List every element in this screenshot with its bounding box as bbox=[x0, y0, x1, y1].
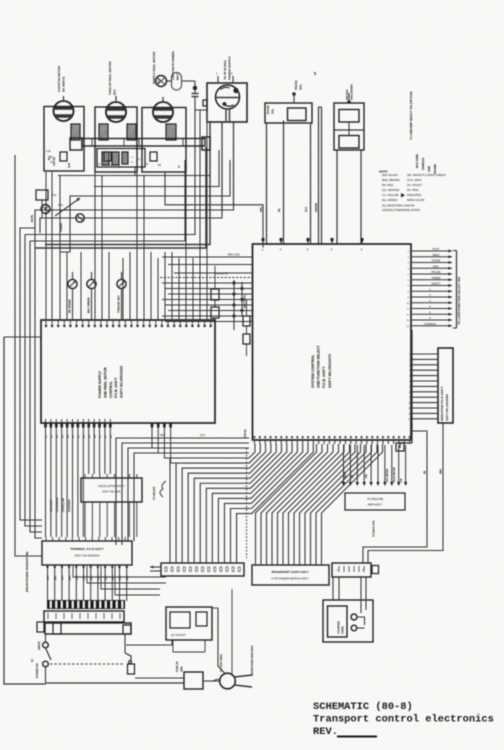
svg-text:ASS'Y NO.05010070: ASS'Y NO.05010070 bbox=[328, 354, 332, 388]
junction bus vertical 1 bbox=[233, 280, 235, 330]
svg-text:BELT: BELT bbox=[176, 73, 180, 80]
svg-text:(G)GREEN: (G)GREEN bbox=[68, 499, 71, 512]
capacitor C1 bbox=[192, 90, 199, 104]
svg-text:TIMER: TIMER bbox=[432, 276, 441, 280]
svg-text:(BK): (BK) bbox=[91, 575, 93, 580]
svg-text:6P: 6P bbox=[313, 72, 317, 75]
terminal board bottom pins bbox=[47, 565, 128, 601]
wires bar to counter bbox=[333, 577, 366, 613]
svg-text:Transport control electronics: Transport control electronics bbox=[313, 714, 494, 726]
svg-text:REW: REW bbox=[433, 253, 440, 257]
power board bottom pins left bbox=[44, 419, 112, 438]
connector bar left wires bbox=[150, 566, 161, 571]
capacitor C2 bbox=[102, 152, 109, 165]
svg-text:(MUTING): (MUTING) bbox=[243, 295, 247, 308]
indicator board pins bbox=[408, 354, 438, 421]
svg-text:(GY): (GY) bbox=[305, 207, 308, 212]
svg-text:BRAKE: BRAKE bbox=[345, 89, 349, 100]
svg-text:UNSWITCHED 200W MAX: UNSWITCHED 200W MAX bbox=[251, 645, 254, 676]
power switch S1 lever bbox=[46, 648, 52, 660]
wire flywheel to node bbox=[167, 80, 195, 82]
motor M1 label texts bbox=[47, 155, 56, 166]
wires to terminal board from fan bbox=[116, 438, 249, 545]
connector bar J2 bbox=[161, 563, 244, 576]
svg-text:REC: REC bbox=[433, 264, 439, 268]
svg-text:BLUE METER: BLUE METER bbox=[394, 467, 396, 482]
system board top pins bbox=[262, 238, 364, 252]
wire relay drop bbox=[42, 200, 46, 233]
supply reel motor M3 bbox=[153, 97, 173, 122]
ac outlet box bbox=[166, 607, 212, 640]
capstan motor M1 bbox=[54, 96, 74, 121]
node A junction dot bbox=[193, 81, 196, 90]
terminal pin colour labels bbox=[48, 575, 129, 580]
power board top pin row bbox=[45, 320, 212, 327]
trimpot VR3 label bbox=[117, 295, 121, 313]
svg-text:ASS'Y NO.05010204: ASS'Y NO.05010204 bbox=[74, 554, 100, 558]
svg-text:SCHEMATIC (80-8): SCHEMATIC (80-8) bbox=[313, 701, 413, 713]
svg-text:TO REC/PB: TO REC/PB bbox=[367, 497, 383, 501]
left vertical label bbox=[25, 552, 29, 592]
wires terminal to outlet bbox=[73, 565, 166, 595]
indicator board label bbox=[440, 387, 449, 421]
svg-text:INDICATES: INDICATES bbox=[407, 193, 421, 197]
wire solenoid drops to board bbox=[281, 250, 286, 253]
svg-text:TO HEADS: TO HEADS bbox=[152, 486, 156, 500]
transistor Q2 bbox=[76, 214, 84, 222]
wire corner group C bbox=[25, 110, 286, 253]
svg-text:(BK): (BK) bbox=[120, 575, 122, 580]
component R9 bbox=[211, 307, 219, 318]
component R8 bbox=[211, 289, 219, 300]
wire sol bus 1 bbox=[0, 0, 1, 1]
component R5 bbox=[243, 316, 250, 326]
switch link dashed bbox=[50, 663, 124, 665]
svg-text:TAKE UP REEL MOTOR: TAKE UP REEL MOTOR bbox=[108, 61, 112, 95]
svg-text:(BK): (BK) bbox=[105, 575, 107, 580]
svg-text:PAUSE: PAUSE bbox=[431, 270, 440, 274]
wire counter left bbox=[232, 589, 244, 674]
terminal board top pins bbox=[46, 537, 125, 541]
component R6 bbox=[243, 334, 250, 344]
svg-text:TO BIAS OSC: TO BIAS OSC bbox=[372, 520, 376, 537]
capstan motor M1 label bbox=[57, 65, 66, 92]
svg-text:4.7K: 4.7K bbox=[58, 204, 63, 207]
brake solenoid SL2 label bbox=[345, 83, 354, 100]
svg-text:(BK): (BK) bbox=[62, 575, 64, 580]
transport control box bbox=[252, 565, 329, 585]
svg-text:TO 4P IN REG.: TO 4P IN REG. bbox=[223, 59, 227, 80]
svg-text:AND REEL MOTOR: AND REEL MOTOR bbox=[103, 367, 107, 398]
svg-text:INDICATOR P.C.B ASS'Y: INDICATOR P.C.B ASS'Y bbox=[440, 387, 444, 421]
oscillator board pins bbox=[85, 474, 137, 507]
svg-text:SYSTEM CONTROL: SYSTEM CONTROL bbox=[311, 354, 315, 388]
svg-text:WIRE COLOR: WIRE COLOR bbox=[407, 198, 424, 202]
svg-text:SOL: SOL bbox=[299, 84, 303, 90]
fuse label bbox=[176, 661, 184, 672]
svg-text:4.75V POWER SWITCH ASS'Y: 4.75V POWER SWITCH ASS'Y bbox=[271, 577, 309, 581]
svg-text:2SD313: 2SD313 bbox=[38, 641, 41, 650]
wires osc to terminal bbox=[85, 507, 137, 537]
motor M2 winding R2 bbox=[99, 124, 108, 140]
svg-text:(BK): (BK) bbox=[84, 575, 86, 580]
svg-text:POWER SW: POWER SW bbox=[35, 663, 39, 678]
svg-text:SOLENOID: SOLENOID bbox=[350, 83, 354, 100]
function select bracket label bbox=[457, 277, 461, 325]
motor M3 frame bbox=[142, 108, 186, 173]
wire bus drop 1 bbox=[105, 167, 135, 176]
system board left comp column label bbox=[243, 295, 247, 308]
svg-text:FUSE 2A: FUSE 2A bbox=[176, 661, 179, 672]
svg-text:(BK): (BK) bbox=[113, 575, 115, 580]
svg-text:(TAPE): (TAPE) bbox=[342, 626, 345, 634]
system board top pin numbers bbox=[0, 0, 1, 1]
svg-text:SOL: SOL bbox=[271, 108, 275, 114]
fan brace label bbox=[152, 486, 156, 500]
svg-text:MUTE: MUTE bbox=[31, 215, 34, 222]
wires into system board left upper bbox=[162, 257, 253, 273]
legend vertical label 4 bbox=[427, 166, 431, 172]
amplifier board bar 2 bbox=[45, 623, 131, 634]
wire outlet drops bbox=[173, 640, 205, 652]
wire corner group A bbox=[60, 150, 230, 252]
svg-text:PAUSE: PAUSE bbox=[294, 80, 298, 90]
svg-text:CAPSTAN MOTOR: CAPSTAN MOTOR bbox=[57, 65, 61, 92]
svg-text:ALL RESISTORS 1/4W 5%: ALL RESISTORS 1/4W 5% bbox=[382, 204, 415, 208]
wire left bus 3 bbox=[30, 241, 42, 532]
wire indicator bus bend bbox=[400, 443, 412, 448]
wire M1 frame drop bbox=[46, 170, 52, 172]
svg-text:(FROM POWER TRANSISTOR): (FROM POWER TRANSISTOR) bbox=[25, 552, 29, 592]
counter assembly box bbox=[323, 600, 373, 642]
svg-text:(P)--PINK: (P)--PINK bbox=[407, 188, 419, 192]
wires into system board left mid bbox=[162, 282, 253, 322]
svg-text:(W): (W) bbox=[366, 474, 368, 478]
motor M2 frame components bbox=[97, 152, 121, 168]
motor M1 frame components bbox=[46, 151, 71, 168]
motor M3 frame components bbox=[145, 152, 181, 168]
component labels under bus bbox=[131, 157, 141, 164]
svg-text:(Y)--YELLOW: (Y)--YELLOW bbox=[382, 193, 399, 197]
svg-text:MUTE: MUTE bbox=[345, 471, 347, 478]
transistor Q1 bbox=[41, 205, 50, 214]
trimpot VR3 bbox=[117, 272, 126, 320]
system box left vertical label bbox=[0, 0, 1, 1]
wire left bus 6 source bbox=[4, 336, 41, 338]
svg-text:(DC): (DC) bbox=[113, 89, 117, 95]
bus terminal right bbox=[202, 137, 210, 150]
terminal board U5 bbox=[42, 541, 132, 565]
svg-text:(GY): (GY) bbox=[200, 434, 205, 437]
caption text bbox=[313, 701, 494, 738]
svg-text:EJECT: EJECT bbox=[432, 282, 441, 286]
wire colour labels bbox=[50, 497, 71, 512]
capacitor C3 bbox=[112, 152, 119, 165]
svg-text:AND FUNCTION SELECT: AND FUNCTION SELECT bbox=[317, 345, 321, 388]
wire under frames bbox=[58, 175, 210, 177]
svg-text:ASS'Y NO.1402: ASS'Y NO.1402 bbox=[102, 490, 121, 494]
ac label 2 bbox=[251, 645, 254, 676]
svg-text:(R): (R) bbox=[278, 208, 281, 212]
capstan flywheel bbox=[156, 76, 167, 87]
counter roller 1 bbox=[351, 614, 365, 625]
system box lower-left label bbox=[243, 429, 247, 438]
capacitor C9 bbox=[122, 152, 128, 164]
svg-text:(W)--WHITE P1 (GRN)--GREEN: (W)--WHITE P1 (GRN)--GREEN bbox=[407, 173, 446, 177]
wire corner group B bbox=[20, 206, 234, 233]
legend upper vertical label bbox=[409, 92, 413, 140]
legend note line 2 bbox=[382, 204, 420, 213]
power board bottom pins right bbox=[151, 423, 172, 428]
relay actuator arrow bbox=[55, 198, 80, 216]
svg-text:(BK): (BK) bbox=[127, 575, 129, 580]
svg-text:AMP ASS'Y: AMP ASS'Y bbox=[368, 503, 383, 507]
trimpot VR1 bbox=[68, 272, 77, 320]
svg-text:(R): (R) bbox=[424, 470, 427, 474]
svg-text:REC LINE: REC LINE bbox=[228, 254, 240, 257]
svg-text:(BK): (BK) bbox=[69, 575, 71, 580]
wires motor area to power board bbox=[46, 110, 207, 320]
resistor block R7 bbox=[37, 622, 44, 632]
wire sol bus 2 bbox=[319, 107, 322, 244]
power switch S1 contact 2 bbox=[43, 661, 49, 683]
connector J1 pin stubs bbox=[216, 72, 233, 84]
trimpot VR2 label bbox=[87, 297, 91, 313]
edge connector comb bbox=[47, 600, 125, 609]
svg-text:125V: 125V bbox=[181, 666, 184, 672]
svg-text:(Y)YELLOW: (Y)YELLOW bbox=[62, 497, 65, 512]
wire indicator bus bbox=[411, 330, 413, 443]
motor M1 frame bbox=[44, 107, 84, 172]
component column wire bbox=[246, 300, 248, 356]
take-up reel motor M2 bbox=[106, 96, 126, 122]
wire corner group E bbox=[35, 121, 210, 248]
pause solenoid SL1 bbox=[265, 93, 312, 123]
svg-text:TORQUE ADJ: TORQUE ADJ bbox=[117, 295, 121, 313]
svg-text:COUNTER: COUNTER bbox=[337, 621, 341, 634]
wire SL2 left bbox=[336, 150, 338, 244]
counter roller 2 bbox=[351, 625, 364, 631]
svg-text:TO LINE/AMP SELECT SW (OPTION): TO LINE/AMP SELECT SW (OPTION) bbox=[409, 92, 413, 140]
legend vertical label 5 bbox=[433, 164, 437, 174]
capacitor C4 bbox=[176, 623, 184, 632]
rec amp label box bbox=[345, 493, 405, 510]
svg-text:(G)--GREEN: (G)--GREEN bbox=[382, 198, 397, 202]
wire corner group D bbox=[162, 172, 263, 257]
motor relay RY1 bbox=[31, 190, 48, 222]
motor M2 label bbox=[108, 61, 117, 95]
bias osc label bbox=[372, 520, 376, 537]
system board bottom pin row bbox=[254, 436, 411, 444]
wire colour legend bbox=[379, 170, 446, 203]
wire SL1 colour labels bbox=[260, 203, 318, 212]
svg-text:BUS WIRE: BUS WIRE bbox=[415, 154, 419, 168]
wire left bus 2 bbox=[25, 235, 42, 527]
svg-text:AC 120V 60Hz: AC 120V 60Hz bbox=[219, 653, 223, 672]
wire pole to outlet bbox=[126, 640, 172, 645]
svg-text:(BK): (BK) bbox=[98, 575, 100, 580]
wires power board right cluster bbox=[152, 428, 249, 464]
svg-text:(W)(BN): (W)(BN) bbox=[315, 203, 318, 212]
motor M3 label bbox=[152, 51, 161, 84]
power switch label bbox=[31, 658, 39, 678]
wire SL2 right bbox=[360, 150, 362, 244]
svg-text:(BK): (BK) bbox=[55, 575, 57, 580]
motor M1 winding R1 bbox=[71, 124, 80, 140]
svg-text:(O)--ORANGE: (O)--ORANGE bbox=[382, 188, 400, 192]
trimpot VR2 bbox=[87, 272, 96, 320]
ac rating label bbox=[219, 653, 223, 672]
svg-text:(V)--VIOLET: (V)--VIOLET bbox=[407, 183, 422, 187]
function select bracket bbox=[453, 251, 457, 329]
svg-text:NOTE:: NOTE: bbox=[379, 170, 388, 174]
wire SL1 mid bbox=[283, 121, 285, 245]
svg-text:(R)--RED: (R)--RED bbox=[382, 183, 393, 187]
capstan flywheel label bbox=[171, 50, 180, 80]
rec amp signal labels bbox=[345, 467, 403, 482]
drive belt bbox=[172, 73, 182, 91]
svg-text:(BK)--BLACK: (BK)--BLACK bbox=[382, 173, 398, 177]
system control board label bbox=[311, 345, 332, 388]
component column wire 2 bbox=[214, 266, 216, 330]
svg-text:(BK): (BK) bbox=[440, 469, 443, 474]
relay cluster labels bbox=[52, 194, 63, 232]
wires power board to terminal bbox=[46, 428, 111, 538]
system control board U2 bbox=[253, 244, 412, 440]
ac plug P1 bbox=[213, 673, 252, 689]
svg-text:4.8V DC: 4.8V DC bbox=[53, 157, 56, 166]
svg-text:P.C.B. ASS'Y: P.C.B. ASS'Y bbox=[114, 377, 118, 398]
svg-text:2.2K: 2.2K bbox=[46, 151, 51, 153]
wires terminal bend right bbox=[155, 571, 369, 601]
wire J1 down right bbox=[233, 122, 235, 206]
counter inner mech bbox=[328, 606, 348, 637]
power supply board U1 bbox=[41, 320, 215, 423]
svg-text:P.B.MUTE: P.B.MUTE bbox=[216, 273, 228, 276]
wire outlet drop2 bbox=[188, 652, 190, 661]
brake solenoid SL2 bbox=[334, 93, 364, 150]
wire left bus 1 bbox=[20, 233, 42, 520]
wire distribution extra bbox=[0, 0, 1, 1]
svg-text:PB SPEED: PB SPEED bbox=[68, 299, 72, 313]
fan brace bbox=[160, 481, 166, 497]
wire left bus 6 bbox=[4, 337, 46, 684]
terminator box T1 bbox=[396, 443, 404, 451]
wire fan nested group bbox=[170, 444, 313, 563]
wire fan diagonal group bbox=[256, 444, 383, 565]
svg-text:ASS'Y NO.A5010080: ASS'Y NO.A5010080 bbox=[445, 394, 449, 421]
svg-text:FRAME: FRAME bbox=[433, 164, 437, 174]
svg-text:POWER SUPPLY: POWER SUPPLY bbox=[228, 56, 232, 80]
svg-text:PLAY: PLAY bbox=[433, 247, 440, 251]
svg-text:POWER: POWER bbox=[60, 223, 63, 232]
wire right drop labels bbox=[424, 469, 443, 474]
bus terminal left bbox=[70, 138, 82, 150]
wire right drop 2 bbox=[368, 423, 443, 563]
svg-text:OSCILLATOR ASS'Y: OSCILLATOR ASS'Y bbox=[98, 484, 125, 488]
svg-text:CONTROL: CONTROL bbox=[109, 381, 113, 398]
wire node to connector bbox=[195, 99, 208, 110]
dashed wire label bbox=[216, 254, 240, 276]
svg-text:SOL METER: SOL METER bbox=[387, 468, 389, 482]
wire plug top bbox=[212, 608, 225, 674]
wire SL1 right bbox=[310, 123, 312, 244]
svg-text:(SW B): (SW B) bbox=[243, 429, 247, 438]
svg-text:(BK): (BK) bbox=[48, 575, 50, 580]
junction bus vertical 2 bbox=[241, 282, 243, 316]
svg-text:REV.: REV. bbox=[313, 726, 338, 738]
svg-text:R12: R12 bbox=[52, 194, 57, 197]
svg-text:=: = bbox=[336, 569, 338, 573]
wire fan label bbox=[160, 434, 205, 437]
motor M3 winding R4 bbox=[166, 124, 176, 140]
component box under bus bbox=[97, 149, 145, 168]
legend vertical label 3 bbox=[421, 158, 425, 170]
svg-text:(SHIELD): (SHIELD) bbox=[421, 158, 425, 170]
svg-text:F.FWD: F.FWD bbox=[432, 259, 441, 263]
svg-text:(BN)--BROWN: (BN)--BROWN bbox=[382, 178, 400, 182]
wires solenoids to system board bbox=[0, 0, 1, 1]
svg-text:(DC SERVO): (DC SERVO) bbox=[62, 77, 66, 92]
svg-text:GND: GND bbox=[427, 166, 431, 172]
svg-text:ASS'Y NO.05010203: ASS'Y NO.05010203 bbox=[120, 366, 124, 398]
svg-text:(R): (R) bbox=[352, 475, 354, 478]
wire right drop 1 bbox=[363, 431, 427, 563]
power supply board label bbox=[98, 366, 124, 398]
small bar J3 bbox=[332, 563, 371, 577]
svg-text:P.B: P.B bbox=[401, 478, 403, 482]
power connector J1 bbox=[203, 83, 247, 122]
wire left bus 5 bbox=[15, 155, 42, 556]
wire SL1 left bbox=[266, 123, 268, 244]
pause solenoid SL1 label bbox=[266, 80, 303, 114]
function select arrows bbox=[406, 247, 452, 328]
wire J1 down left bbox=[221, 122, 223, 213]
trimpot VR1 label bbox=[68, 299, 72, 313]
fuse F1 bbox=[184, 672, 219, 689]
svg-text:REC SPEED: REC SPEED bbox=[87, 297, 91, 313]
power transistor label bbox=[38, 641, 41, 650]
motor M2 winding R3 bbox=[127, 124, 136, 140]
svg-text:TERMINAL P.C.B ASS'Y: TERMINAL P.C.B ASS'Y bbox=[70, 547, 104, 551]
connector J1 label bbox=[223, 56, 232, 80]
motor M2 frame bbox=[95, 107, 137, 172]
power switch S1 pole 2 bbox=[125, 634, 184, 678]
power switch S1 contact 1 bbox=[43, 634, 49, 648]
dashed wire P.B. line bbox=[160, 277, 253, 279]
tiny connector sq bbox=[372, 566, 379, 574]
oscillator board U4 bbox=[81, 478, 142, 502]
wire left bus 4 bbox=[35, 228, 42, 538]
svg-text:(GY)--GRAY: (GY)--GRAY bbox=[407, 178, 422, 182]
svg-text:POWER SUPPLY: POWER SUPPLY bbox=[98, 370, 102, 398]
dotted wire below box corner bbox=[246, 448, 248, 558]
amplifier board bar 1 bbox=[44, 611, 124, 622]
svg-text:TRANSPORT CONT ASS'Y: TRANSPORT CONT ASS'Y bbox=[271, 570, 309, 574]
solenoid bus label bbox=[313, 72, 317, 75]
svg-text:10uF: 10uF bbox=[69, 162, 71, 168]
svg-text:(BK): (BK) bbox=[77, 575, 79, 580]
legend vertical label 2 bbox=[415, 154, 419, 168]
motor terminal bus bbox=[82, 139, 205, 147]
svg-text:P.C.B. ASS'Y: P.C.B. ASS'Y bbox=[322, 366, 326, 388]
rec amp signal arrows bbox=[342, 445, 408, 486]
svg-text:UNLESS OTHERWISE NOTED: UNLESS OTHERWISE NOTED bbox=[382, 208, 420, 212]
svg-text:PAUSE: PAUSE bbox=[266, 105, 270, 114]
wire switch bottom bbox=[46, 682, 184, 684]
svg-text:COMMON: COMMON bbox=[424, 322, 436, 326]
svg-text:TO LAMP/FUNCTION SELECT SW: TO LAMP/FUNCTION SELECT SW bbox=[457, 277, 461, 325]
